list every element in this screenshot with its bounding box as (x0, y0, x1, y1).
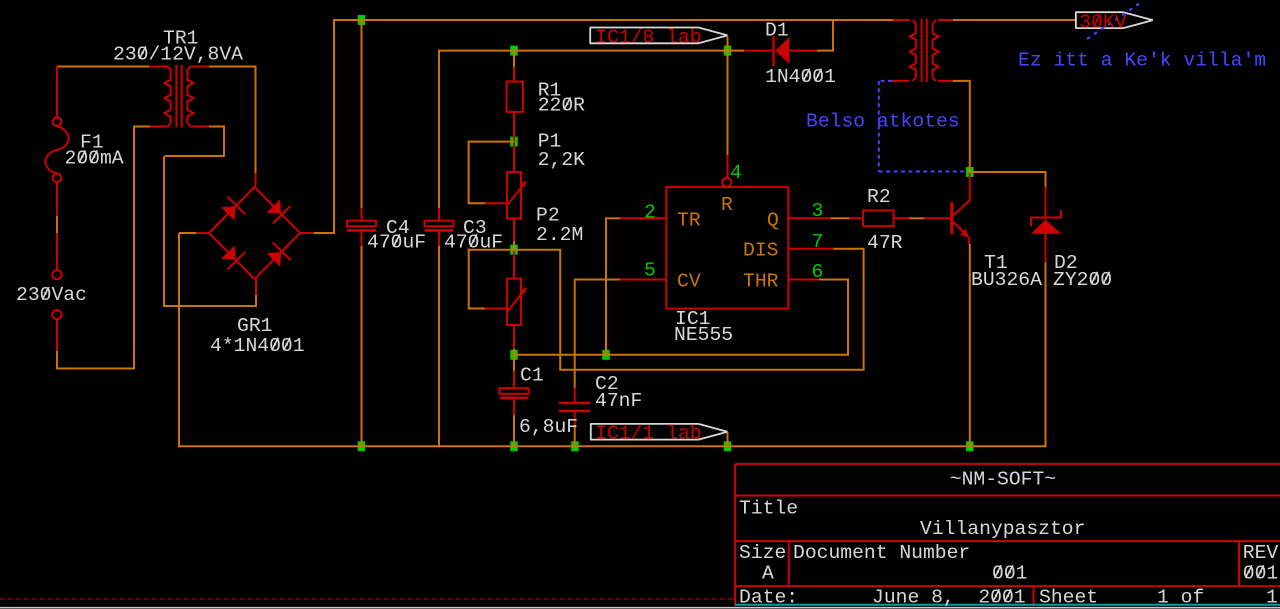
svg-text:5: 5 (644, 259, 656, 281)
svg-text:3: 3 (812, 200, 824, 222)
svg-text:230/12V,8VA: 230/12V,8VA (113, 44, 243, 66)
svg-text:30KV: 30KV (1079, 11, 1126, 33)
svg-text:Document Number: Document Number (793, 542, 970, 564)
svg-text:Villanypasztor: Villanypasztor (920, 518, 1085, 540)
svg-text:Title: Title (739, 497, 798, 519)
svg-text:THR: THR (743, 270, 779, 292)
svg-text:IC1/1 lab: IC1/1 lab (595, 423, 701, 445)
svg-text:1 of: 1 of (1157, 586, 1204, 608)
svg-text:ZY200: ZY200 (1053, 269, 1112, 291)
svg-text:D1: D1 (765, 19, 789, 41)
svg-text:6,8uF: 6,8uF (519, 416, 578, 438)
svg-text:Date:: Date: (739, 586, 798, 608)
svg-text:CV: CV (677, 270, 701, 292)
svg-text:220R: 220R (538, 95, 585, 117)
svg-text:2,2K: 2,2K (538, 149, 585, 171)
svg-text:2: 2 (644, 201, 656, 223)
svg-text:6: 6 (812, 261, 824, 283)
svg-text:R: R (721, 194, 733, 216)
svg-text:~NM-SOFT~: ~NM-SOFT~ (950, 468, 1056, 490)
svg-text:47R: 47R (867, 232, 903, 254)
svg-text:Belso atkotes: Belso atkotes (806, 111, 960, 133)
svg-text:IC1/8 lab: IC1/8 lab (595, 26, 701, 48)
svg-text:Q: Q (767, 209, 779, 231)
svg-text:1N4001: 1N4001 (765, 66, 836, 88)
svg-text:200mA: 200mA (65, 148, 124, 170)
svg-text:June 8, 2001: June 8, 2001 (872, 586, 1026, 608)
svg-text:2.2M: 2.2M (536, 224, 583, 246)
svg-text:C1: C1 (520, 364, 544, 386)
svg-text:DIS: DIS (743, 239, 778, 261)
svg-text:TR: TR (677, 209, 701, 231)
svg-text:4: 4 (730, 162, 742, 184)
svg-text:7: 7 (812, 231, 824, 253)
svg-text:Size: Size (739, 542, 786, 564)
svg-text:NE555: NE555 (674, 324, 733, 346)
svg-text:230Vac: 230Vac (16, 284, 87, 306)
svg-text:A: A (762, 562, 774, 584)
svg-text:R2: R2 (867, 186, 891, 208)
svg-text:GR1: GR1 (237, 315, 272, 337)
svg-text:1: 1 (1266, 586, 1278, 608)
svg-text:470uF: 470uF (367, 231, 426, 253)
svg-text:470uF: 470uF (444, 231, 503, 253)
svg-text:47nF: 47nF (595, 390, 642, 412)
svg-text:Sheet: Sheet (1039, 586, 1098, 608)
svg-text:BU326A: BU326A (971, 269, 1042, 291)
svg-text:Ez itt a Ke'k villa'm: Ez itt a Ke'k villa'm (1018, 50, 1266, 72)
svg-text:REV: REV (1243, 542, 1279, 564)
